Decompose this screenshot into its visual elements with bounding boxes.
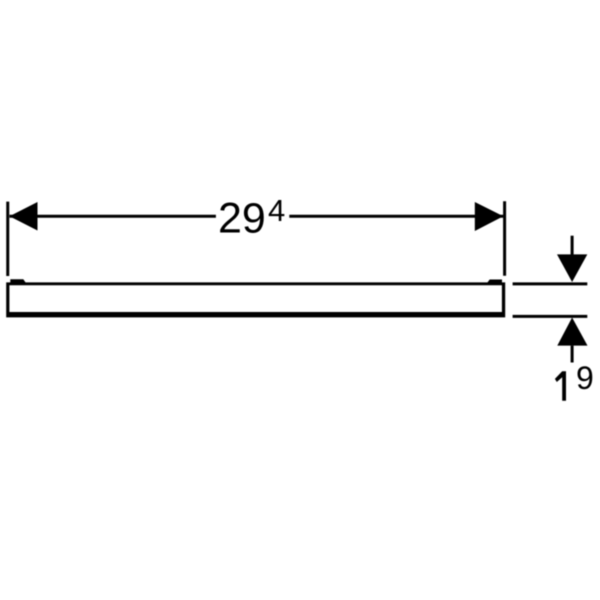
svg-text:29: 29 xyxy=(218,195,266,243)
svg-text:4: 4 xyxy=(268,193,285,228)
svg-text:9: 9 xyxy=(576,360,594,396)
